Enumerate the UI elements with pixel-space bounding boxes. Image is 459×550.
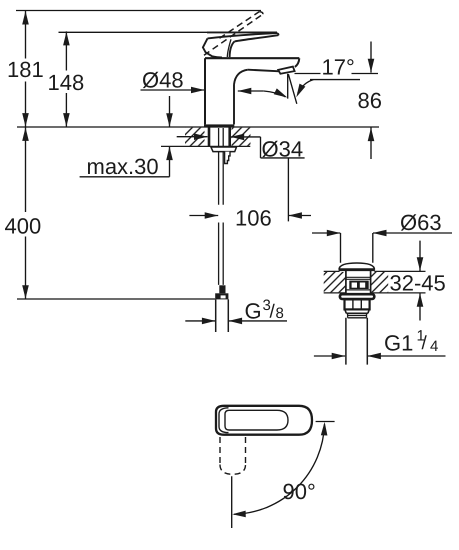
svg-text:32-45: 32-45 <box>390 271 446 296</box>
svg-text:G: G <box>245 299 262 324</box>
svg-text:/: / <box>422 333 428 354</box>
svg-text:Ø63: Ø63 <box>400 210 442 235</box>
svg-text:4: 4 <box>430 338 438 355</box>
svg-text:400: 400 <box>5 214 42 239</box>
svg-text:max.30: max.30 <box>87 154 159 179</box>
svg-text:86: 86 <box>358 88 382 113</box>
svg-text:/: / <box>270 302 276 323</box>
svg-text:106: 106 <box>235 206 272 231</box>
svg-text:90°: 90° <box>283 479 316 504</box>
svg-text:Ø34: Ø34 <box>262 137 304 162</box>
svg-text:Ø48: Ø48 <box>142 68 184 93</box>
svg-text:181: 181 <box>7 57 44 82</box>
svg-text:148: 148 <box>48 70 85 95</box>
svg-text:17°: 17° <box>322 55 355 80</box>
svg-text:8: 8 <box>276 305 284 322</box>
svg-text:G1: G1 <box>384 331 413 356</box>
